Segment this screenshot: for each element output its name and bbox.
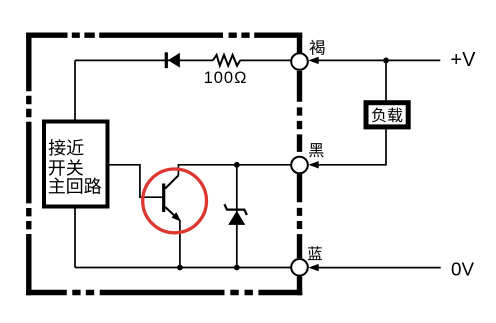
svg-text:+V: +V	[450, 49, 476, 71]
svg-text:0V: 0V	[451, 259, 474, 280]
svg-text:100Ω: 100Ω	[204, 69, 248, 87]
